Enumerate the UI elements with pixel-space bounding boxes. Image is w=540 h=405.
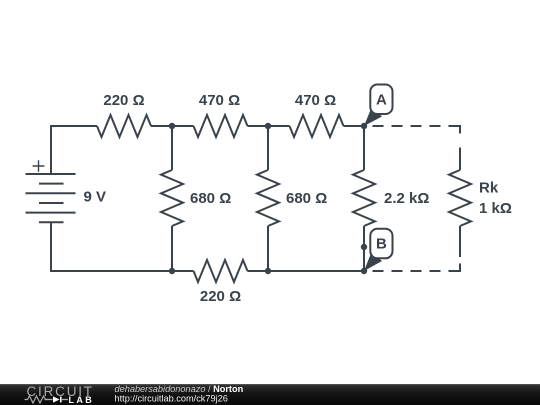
resistor R2 470 ohm body xyxy=(194,115,248,137)
resistor R6 680 ohm body xyxy=(257,170,279,226)
footer bar xyxy=(0,384,540,405)
svg-text:9 V: 9 V xyxy=(84,189,107,206)
node A flag box xyxy=(370,85,392,115)
wire node A down xyxy=(363,126,365,170)
logo resistor zigzag xyxy=(25,396,49,403)
resistor R3 470 ohm body xyxy=(290,115,344,137)
junction dot node2 top xyxy=(265,123,271,129)
junction dot node B anchor xyxy=(361,244,367,250)
node A flag tail xyxy=(364,108,382,127)
node B flag box xyxy=(370,229,392,258)
battery plus sign xyxy=(33,160,45,172)
wire R7 to node B xyxy=(363,226,365,271)
wire Rk top lead xyxy=(459,148,461,171)
svg-text:680 Ω: 680 Ω xyxy=(286,190,327,207)
wire R5 to bottom rail xyxy=(171,226,173,271)
battery V1 plates xyxy=(26,174,76,222)
resistor Rk 1k body xyxy=(449,170,471,226)
wire R2 to node2 xyxy=(248,125,290,127)
dashed wire Rk bottom to node B xyxy=(373,264,461,272)
wire node1 down xyxy=(171,126,173,170)
logo wire and diode xyxy=(45,396,69,402)
svg-text:2.2 kΩ: 2.2 kΩ xyxy=(384,190,429,207)
svg-text:Rk: Rk xyxy=(479,180,499,197)
resistor R4 220 ohm bottom body xyxy=(194,260,248,282)
svg-text:680 Ω: 680 Ω xyxy=(190,190,231,207)
wire Rk bottom lead xyxy=(459,226,461,257)
junction dot bottom left xyxy=(169,268,175,274)
junction dot node1 top xyxy=(169,123,175,129)
dashed wire node A to Rk top xyxy=(373,126,461,134)
svg-text:B: B xyxy=(376,236,387,253)
resistor R7 2.2k body xyxy=(353,170,375,226)
resistor R1 220 ohm body xyxy=(97,115,151,137)
svg-text:220 Ω: 220 Ω xyxy=(103,92,144,109)
svg-text:470 Ω: 470 Ω xyxy=(295,92,336,109)
svg-text:A: A xyxy=(376,91,387,108)
junction dot node A xyxy=(361,123,367,129)
wire R1 to node1 xyxy=(151,125,194,127)
wire top-left from battery plus to R1 xyxy=(51,126,97,174)
wire battery minus to bottom rail xyxy=(51,222,194,271)
wire R3 to node A xyxy=(344,125,365,127)
wire R4 to node B xyxy=(248,270,365,272)
junction dot node B bottom xyxy=(361,268,367,274)
wire R6 to bottom rail xyxy=(267,226,269,271)
svg-text:LAB: LAB xyxy=(69,395,95,405)
svg-text:1 kΩ: 1 kΩ xyxy=(479,200,512,217)
svg-text:220 Ω: 220 Ω xyxy=(200,288,241,305)
svg-text:470 Ω: 470 Ω xyxy=(199,92,240,109)
wire node2 down xyxy=(267,126,269,170)
resistor R5 680 ohm body xyxy=(161,170,183,226)
node B flag tail xyxy=(364,252,382,271)
junction dot bottom mid xyxy=(265,268,271,274)
svg-text:http://circuitlab.com/ck79j26: http://circuitlab.com/ck79j26 xyxy=(115,393,228,403)
